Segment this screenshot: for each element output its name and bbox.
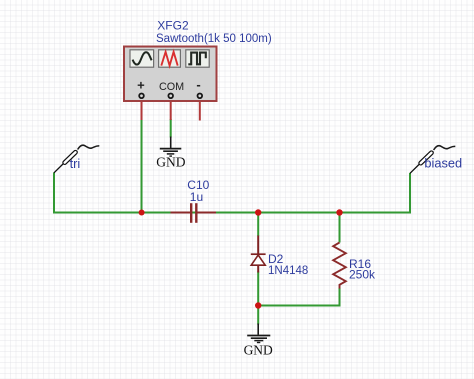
svg-text:D2: D2 <box>268 252 284 266</box>
svg-text:1N4148: 1N4148 <box>268 265 308 277</box>
svg-text:GND: GND <box>156 155 185 170</box>
svg-text:Sawtooth(1k 50 100m): Sawtooth(1k 50 100m) <box>156 33 272 45</box>
svg-text:biased: biased <box>424 156 462 171</box>
svg-text:-: - <box>196 77 200 92</box>
svg-text:XFG2: XFG2 <box>157 19 189 33</box>
svg-text:tri: tri <box>70 156 81 171</box>
svg-text:+: + <box>137 78 145 93</box>
svg-text:1u: 1u <box>190 190 203 204</box>
svg-text:COM: COM <box>159 81 184 93</box>
svg-text:250k: 250k <box>349 267 376 281</box>
svg-text:GND: GND <box>244 342 273 357</box>
